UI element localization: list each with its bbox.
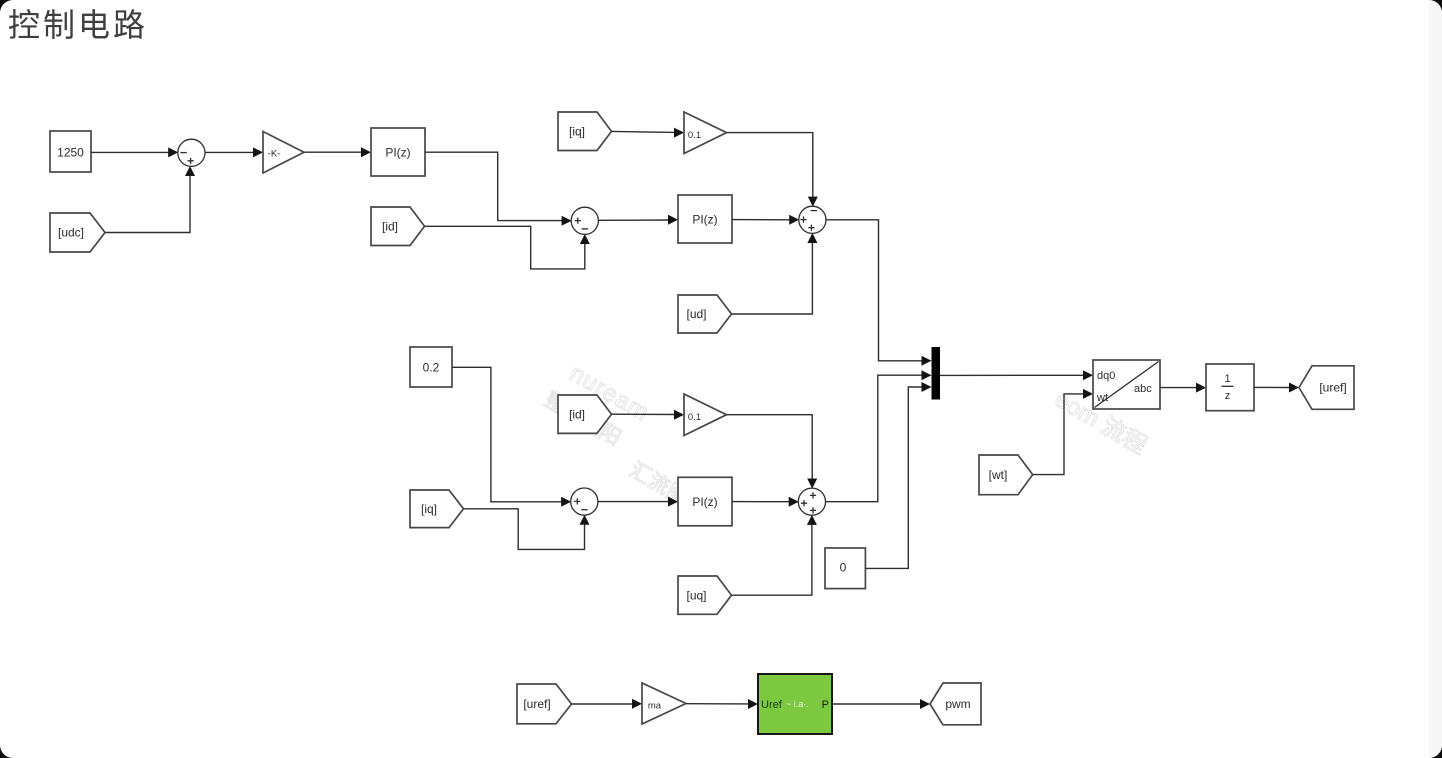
constant block 1250 [50, 131, 91, 172]
from tag [id] top [371, 207, 425, 246]
wire: gain K to PI1 [304, 147, 371, 157]
gain -K- [263, 132, 304, 174]
svg-text:[uref]: [uref] [1319, 381, 1346, 395]
goto tag [uref] [1299, 366, 1354, 410]
wire: 1250 to sum S1 [91, 147, 178, 157]
sum S1 [178, 139, 205, 166]
wire: PI3 to sum S4 [732, 497, 799, 507]
wire: sum S1 to gain K [205, 147, 263, 157]
wire: PI1 to sum S2 [425, 152, 572, 226]
from tag [wt] [979, 455, 1033, 495]
PWM generator block [758, 674, 832, 734]
wire: [uq] to sum S4 bottom [732, 515, 817, 595]
wire: mux to dq0 block [940, 370, 1093, 380]
svg-text:PI(z): PI(z) [385, 146, 410, 160]
PI controller PI3 [678, 477, 732, 526]
wire: [uref] bottom to gain ma [572, 699, 643, 709]
svg-text:0.2: 0.2 [423, 361, 440, 375]
svg-text:[wt]: [wt] [989, 468, 1008, 482]
svg-text:wt: wt [1096, 392, 1108, 404]
wire: unit delay to goto [uref] [1254, 383, 1299, 393]
wire: sum S4 to mux input 2 [825, 370, 931, 502]
wire: sum S5 to PI3 [598, 497, 679, 507]
wire: gain ma to PWM block [686, 699, 758, 709]
wire: dq0 block to unit delay [1160, 383, 1206, 393]
svg-text:dq0: dq0 [1097, 370, 1115, 382]
wire: sum S2 to PI2 [598, 215, 678, 225]
svg-text:PI(z): PI(z) [692, 495, 717, 509]
wire: [ud] to sum S3 bottom [732, 233, 818, 314]
svg-text:~ i.a·.: ~ i.a·. [786, 699, 809, 709]
PI controller PI2 [678, 195, 732, 243]
wire: PI2 to sum S3 [732, 215, 799, 225]
wire: [iq] lower to sum S5 bottom [464, 509, 590, 550]
svg-text:[uq]: [uq] [686, 589, 706, 603]
from tag [udc] [50, 213, 105, 252]
svg-text:ma: ma [648, 701, 662, 712]
svg-text:[id]: [id] [382, 220, 398, 234]
wire: gain G3 to sum S4 top [727, 415, 818, 489]
svg-text:0: 0 [840, 561, 847, 575]
sum S2 [571, 207, 598, 234]
PI controller PI1 [371, 128, 425, 176]
svg-text:Uref: Uref [761, 699, 783, 711]
wire: PWM block to goto pwm [832, 699, 930, 709]
wire: [id] middle to gain G3 [612, 410, 685, 420]
gain G3 0.1 [684, 394, 727, 436]
svg-text:[ud]: [ud] [686, 307, 706, 321]
goto tag pwm [930, 683, 981, 725]
from tag [uq] [678, 576, 732, 614]
svg-text:pwm: pwm [945, 697, 970, 711]
gain ma [642, 683, 686, 724]
svg-text:PI(z): PI(z) [692, 213, 717, 227]
svg-text:[iq]: [iq] [569, 125, 585, 139]
wire: gain G2 to sum S3 top [727, 133, 818, 207]
wire: 0.2 to sum S5 [452, 367, 571, 507]
svg-text:[id]: [id] [569, 408, 585, 422]
mux Mux1 [932, 347, 941, 400]
svg-text:0.1: 0.1 [688, 130, 701, 141]
sum S3 [799, 206, 826, 233]
wire: [wt] to dq0 block input 2 [1033, 389, 1093, 475]
from tag [iq] top [558, 112, 612, 151]
svg-text:z: z [1225, 390, 1231, 402]
from tag [uref] bottom [517, 684, 572, 724]
svg-text:abc: abc [1134, 383, 1152, 395]
wire: 0 to mux input 3 [865, 382, 931, 568]
unit delay 1/z [1206, 364, 1254, 411]
svg-text:[iq]: [iq] [421, 502, 437, 516]
from tag [id] middle [558, 395, 612, 433]
svg-text:1: 1 [1224, 373, 1230, 385]
sum S5 [571, 488, 598, 515]
from tag [iq] lower [410, 490, 464, 528]
svg-text:-K-: -K- [268, 149, 281, 160]
constant block 0 [825, 548, 865, 589]
svg-text:0.1: 0.1 [688, 412, 701, 423]
svg-text:[udc]: [udc] [58, 226, 84, 240]
gain G2 0.1 [684, 112, 727, 154]
sum S4 [798, 488, 825, 515]
wire: [id] top to sum S2 bottom [425, 226, 590, 269]
wire: [udc] to sum S1 bottom [105, 166, 195, 233]
from tag [ud] [678, 295, 732, 333]
svg-text:P: P [822, 699, 829, 711]
transform block dq0 to abc [1093, 360, 1160, 409]
wire: sum S3 to mux input 1 [826, 220, 932, 366]
constant block 0.2 [410, 347, 452, 387]
svg-text:[uref]: [uref] [523, 697, 550, 711]
svg-text:1250: 1250 [57, 146, 84, 160]
wire: [iq] top to gain G2 [612, 128, 685, 138]
